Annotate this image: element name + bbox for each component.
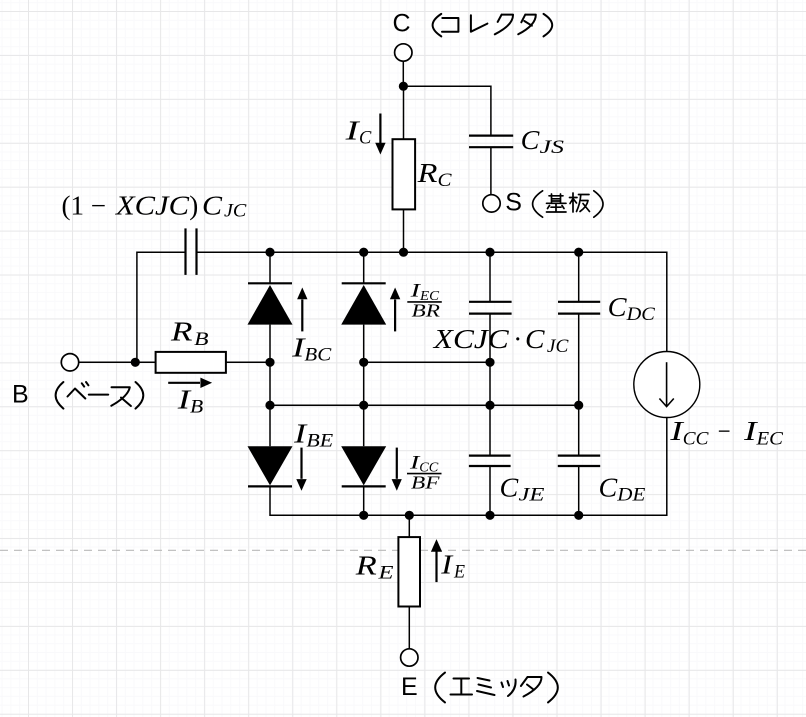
- wire col1 row2 to D3: [269, 405, 271, 446]
- svg-text:E: E: [401, 673, 418, 701]
- node dot rowB col3: [485, 358, 494, 367]
- node dot row2 col2: [359, 401, 368, 410]
- svg-text:R: R: [417, 158, 439, 188]
- wire bottom bus with corners: [270, 417, 667, 515]
- resistor R_B: [156, 352, 226, 373]
- svg-text:C: C: [438, 170, 452, 191]
- svg-text:DC: DC: [626, 304, 656, 325]
- svg-text:S: S: [505, 189, 522, 217]
- node dot bottom col4: [574, 511, 583, 520]
- page break dashed line: [0, 549, 806, 551]
- svg-text:E: E: [453, 561, 465, 582]
- label I_CC - I_EC: [669, 416, 783, 450]
- wire col3 XCJC cap to rowB: [489, 314, 491, 363]
- label R_C: [417, 158, 452, 191]
- node dot row2 col3: [485, 401, 494, 410]
- svg-text:E: E: [377, 563, 394, 584]
- node dot rowB col2: [359, 358, 368, 367]
- wire col2 bus to D2: [363, 252, 365, 283]
- wire RB to col1: [226, 361, 270, 363]
- node dot bottom col2: [359, 511, 368, 520]
- svg-text:R: R: [170, 317, 193, 347]
- label C_DE: [599, 472, 646, 505]
- wire col2 D4 to bottom bus: [363, 486, 365, 515]
- svg-text:EC: EC: [755, 428, 783, 449]
- wire col1 rowB to row2: [269, 362, 271, 405]
- wire B terminal to RB: [79, 361, 156, 363]
- svg-text:−: −: [716, 416, 732, 446]
- wire row2 segment: [270, 404, 579, 406]
- label I_BC: [291, 333, 332, 366]
- arrow I_BC: [297, 288, 307, 332]
- svg-text:C: C: [359, 127, 372, 148]
- svg-text:C: C: [608, 292, 628, 322]
- label C_JS: [521, 125, 565, 158]
- svg-text:I: I: [440, 550, 455, 580]
- wire col1 bus to D1: [269, 252, 271, 283]
- diode D4 (I_CC/BF, down): [341, 446, 386, 486]
- wire col2 rowB to row2: [363, 362, 365, 405]
- svg-text:B: B: [190, 397, 204, 418]
- wire col3 row2 to CJE: [489, 405, 491, 455]
- node dot bottom RE: [405, 511, 414, 520]
- node dot row2 col4: [574, 401, 583, 410]
- wire col3 bus to XCJC cap: [489, 252, 491, 302]
- svg-text:C: C: [525, 324, 546, 354]
- arrow I_CC: [392, 448, 402, 491]
- label R_E: [355, 551, 394, 584]
- arrow I_E: [431, 539, 442, 582]
- label (kiban) kanji: [533, 191, 603, 217]
- node dot bus col3: [485, 248, 494, 257]
- label fraction I_CC/BF: [407, 452, 442, 492]
- terminal C: [395, 44, 412, 61]
- diode D1 (I_BC, up): [248, 283, 293, 324]
- node dot C: [399, 82, 408, 91]
- wire col4 row2 to CDE: [578, 405, 580, 455]
- wire CJS to S terminal: [490, 147, 492, 195]
- svg-text:C: C: [599, 472, 619, 502]
- terminal E: [401, 649, 418, 666]
- arrow I_BE: [296, 448, 306, 491]
- terminal S: [483, 195, 500, 212]
- label (1-XCJC)C_JC: [62, 191, 247, 222]
- resistor R_E: [398, 537, 420, 606]
- svg-text:(1 −XCJC)C: (1 −XCJC)C: [62, 191, 224, 221]
- wire node to CJS branch: [403, 86, 491, 135]
- wire rowB segment: [364, 361, 490, 363]
- svg-text:B: B: [12, 381, 29, 409]
- capacitor C_JS: [469, 136, 513, 148]
- svg-text:C: C: [500, 472, 520, 502]
- svg-text:·: ·: [514, 324, 521, 354]
- resistor R_C: [393, 139, 416, 209]
- label (korekuta) kana: [433, 14, 553, 37]
- svg-text:XCJC: XCJC: [433, 324, 510, 354]
- label XCJC*C_JC: [433, 324, 569, 357]
- svg-text:C: C: [521, 125, 541, 155]
- wire RE to bottom bus: [408, 515, 410, 537]
- current source I_CC-I_EC: [634, 352, 700, 418]
- node dot bus RC: [399, 248, 408, 257]
- svg-text:BE: BE: [306, 430, 333, 451]
- node dot B: [131, 358, 140, 367]
- wire col3 CJE to bottom bus: [489, 466, 491, 515]
- wire col2 row2 to D4: [363, 405, 365, 446]
- svg-text:DE: DE: [616, 484, 646, 505]
- capacitor C_DC: [558, 302, 600, 314]
- label fraction I_EC/BR: [407, 281, 442, 321]
- node dot bottom col3: [485, 511, 494, 520]
- arrow I_EC: [390, 288, 400, 332]
- wire col4 CDE to bottom bus: [578, 466, 580, 515]
- capacitor XCJC*C_JC: [469, 302, 512, 314]
- diode D3 (I_BE, down): [248, 446, 293, 486]
- svg-text:C: C: [393, 10, 411, 38]
- arrow I_B: [168, 378, 212, 388]
- wire node to RC top: [403, 86, 405, 139]
- node dot bus col2: [359, 248, 368, 257]
- svg-text:B: B: [194, 329, 209, 350]
- svg-text:BR: BR: [412, 301, 440, 321]
- arrow I_C: [375, 114, 385, 155]
- svg-text:JC: JC: [547, 336, 569, 357]
- label (besu) kana: [56, 382, 144, 409]
- svg-text:R: R: [355, 551, 378, 581]
- label I_BE: [293, 419, 334, 452]
- svg-text:BF: BF: [411, 472, 441, 492]
- wire col4 CDC to row2: [578, 314, 580, 406]
- diode D2 (I_EC/BR, up): [341, 283, 386, 324]
- label (emitta) kana: [435, 673, 558, 703]
- capacitor C_DE: [558, 456, 600, 466]
- wire top bus and right drop: [197, 252, 667, 351]
- capacitor C_JE: [469, 456, 511, 466]
- node dot bus col1: [265, 248, 274, 257]
- label C_DC: [608, 292, 655, 325]
- wire left drop and bus left segment: [137, 252, 186, 362]
- node dot bus col4: [574, 248, 583, 257]
- wire col3 rowB to row2: [489, 362, 491, 405]
- wire RE to E terminal: [408, 607, 410, 649]
- label I_E: [440, 550, 465, 583]
- svg-text:BC: BC: [304, 344, 331, 365]
- node dot rowB col1: [265, 358, 274, 367]
- node dot row2 col1: [265, 401, 274, 410]
- label C_JE: [500, 472, 546, 505]
- wire col2 D2 to rowB: [363, 325, 365, 363]
- wire col1 D1 to rowB: [269, 325, 271, 363]
- capacitor (1-XCJC)C_JC: [186, 228, 197, 275]
- label I_C: [344, 116, 371, 149]
- svg-text:JS: JS: [540, 137, 565, 158]
- label R_B: [170, 317, 209, 350]
- svg-text:JE: JE: [519, 484, 546, 505]
- wire C terminal to node: [402, 61, 404, 86]
- label I_B: [176, 385, 203, 418]
- wire col4 bus to CDC: [578, 252, 580, 302]
- wire RC bottom to top bus: [403, 209, 405, 252]
- svg-text:CC: CC: [683, 428, 709, 449]
- svg-text:JC: JC: [224, 201, 247, 222]
- terminal B: [61, 354, 78, 371]
